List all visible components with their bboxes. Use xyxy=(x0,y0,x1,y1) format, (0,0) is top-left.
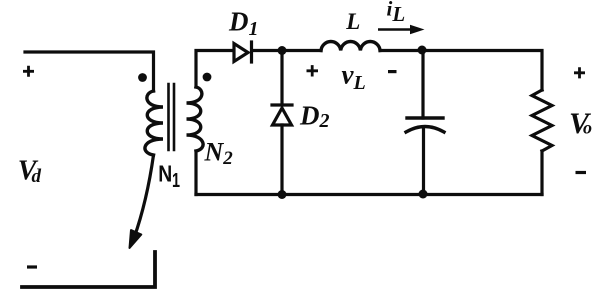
diode D2 branch wire top xyxy=(280,51,283,106)
label: plus (vL) xyxy=(307,65,319,76)
svg-text:L: L xyxy=(345,9,360,34)
transformer winding N2 xyxy=(187,87,204,151)
resistor R load xyxy=(532,90,552,151)
svg-text:d: d xyxy=(32,166,42,187)
capacitor C xyxy=(406,118,444,132)
node: C bottom xyxy=(419,190,428,199)
label: plus (Vo top) xyxy=(574,67,585,78)
wire: primary top (Vd + terminal to N1 top) xyxy=(25,52,154,91)
label: plus (Vd top) xyxy=(23,66,34,77)
wire: primary bottom (Vd - terminal to switch stub) xyxy=(22,252,155,287)
wire: resistor bottom to rail xyxy=(540,151,543,195)
wire: D1 cathode to inductor xyxy=(252,49,321,52)
dot: N1 polarity xyxy=(138,73,147,82)
wire: N2 bottom to rail corner xyxy=(194,151,197,195)
capacitor C branch wire bottom xyxy=(422,129,425,195)
switch SW arrowhead xyxy=(130,230,142,248)
capacitor C branch wire top xyxy=(421,51,424,119)
wire: N2 top to D1 anode xyxy=(196,51,233,88)
label: minus (vL) xyxy=(388,70,397,73)
wire: top rail inductor to load corner xyxy=(380,51,542,91)
node: D1 cathode / D2 top xyxy=(278,46,287,55)
svg-text:1: 1 xyxy=(172,170,180,192)
label: minus (Vd bottom) xyxy=(27,265,37,268)
arrow: iL current xyxy=(378,28,411,31)
inductor L xyxy=(321,42,380,51)
svg-text:o: o xyxy=(583,118,592,138)
diode D2 branch wire bottom xyxy=(280,125,283,195)
transformer winding N1 xyxy=(145,91,163,155)
dot: N2 polarity xyxy=(203,73,212,82)
label: minus (Vo bottom) xyxy=(576,171,587,174)
svg-text:N: N xyxy=(158,161,172,187)
wire: bottom rail xyxy=(196,193,542,196)
node: L out / C top xyxy=(418,46,427,55)
node: D2 bottom xyxy=(278,190,287,199)
transformer core xyxy=(169,84,175,150)
diode D2 xyxy=(272,105,292,125)
diode D1 xyxy=(234,42,252,62)
switch SW arm xyxy=(134,155,154,238)
